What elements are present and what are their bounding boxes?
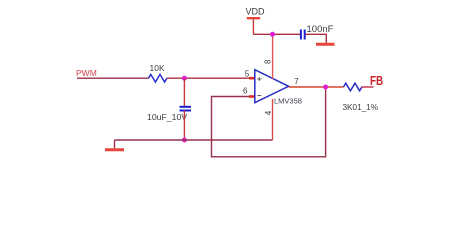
svg-text:3K01_1%: 3K01_1% <box>343 103 379 112</box>
wire: op-amp output pin 7 <box>289 86 344 88</box>
resistor R2 <box>344 83 362 91</box>
svg-text:4: 4 <box>264 110 273 115</box>
svg-text:5: 5 <box>245 69 250 78</box>
svg-text:7: 7 <box>294 77 299 86</box>
wire: node down to C1 <box>183 78 185 106</box>
svg-text:8: 8 <box>263 59 272 64</box>
pin 6 stub <box>249 95 255 98</box>
svg-text:VDD: VDD <box>246 6 266 16</box>
capacitor C2 <box>300 30 302 40</box>
svg-text:100nF: 100nF <box>307 24 334 35</box>
feedback wire <box>212 87 326 157</box>
svg-text:10uF_10V: 10uF_10V <box>147 112 187 122</box>
svg-text:LMV358: LMV358 <box>274 97 302 106</box>
svg-text:FB: FB <box>370 74 383 88</box>
wire: PWM to R1 <box>77 77 149 79</box>
resistor R1 <box>149 74 167 82</box>
wire: R1 to op-amp pin 5 <box>167 77 250 79</box>
op-amp U1 <box>255 70 289 103</box>
plus (pin5 input) <box>257 77 261 81</box>
minus (pin6 input) <box>257 95 261 97</box>
junction: output / feedback <box>323 85 328 90</box>
ground symbol left <box>114 140 116 148</box>
junction: VDD / pin8 <box>270 32 275 37</box>
wire: C1 to ground rail <box>183 111 185 141</box>
pin 5 stub <box>249 77 255 80</box>
svg-text:10K: 10K <box>150 63 165 73</box>
svg-text:6: 6 <box>243 86 248 95</box>
capacitor C1 <box>180 106 192 108</box>
junction: ground rail node <box>182 138 187 143</box>
junction: R1/C1 node <box>182 76 187 81</box>
wire: C2 to ground <box>306 34 327 43</box>
wire: pin 8 to VDD rail <box>272 34 274 79</box>
ground symbol right <box>316 43 335 46</box>
wire: R2 to FB <box>362 86 374 88</box>
ground rail wire <box>115 139 273 141</box>
wire: pin 4 to ground rail <box>272 99 274 140</box>
svg-text:PWM: PWM <box>76 68 97 78</box>
VDD rail wire <box>253 33 300 35</box>
